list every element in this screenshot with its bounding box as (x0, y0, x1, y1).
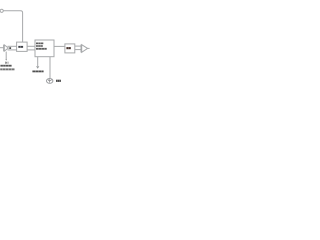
wire USB drop (49, 57, 51, 78)
wire A/D to DSP lower (27, 49, 35, 51)
label SIGNAL (36, 45, 43, 47)
USB trident mark (48, 79, 52, 82)
DSP box U2 (35, 40, 54, 57)
label attenuation values (0, 68, 14, 70)
wire amp to A/D lower (8, 49, 17, 51)
wire from connector to A/D converter top (3, 11, 22, 42)
label DIGITAL (36, 43, 43, 45)
amplifier U1 input bar (3, 45, 5, 52)
wire DSP to D/A (54, 45, 65, 47)
label PROCESSING (36, 48, 47, 50)
wire D/A to amp upper (75, 45, 81, 47)
amplifier U1 triangle (4, 45, 8, 51)
label IN-LEVEL (0, 65, 11, 67)
gain arrow head (5, 59, 7, 61)
label A/D (18, 46, 23, 48)
wire amp to A/D upper (8, 45, 17, 47)
gain control wire down from amp (5, 52, 7, 60)
antenna symbol arrowhead (36, 66, 39, 69)
wire audio out (88, 47, 90, 49)
wire D/A to amp lower (75, 49, 81, 51)
wire line-in left edge (0, 47, 3, 49)
amplifier U3 input bar (80, 45, 82, 53)
wire A/D to DSP upper (27, 45, 35, 47)
label USB (56, 80, 61, 82)
A/D converter box (17, 42, 28, 51)
USB connector oval (47, 79, 53, 84)
wire wireless antenna drop (37, 57, 39, 66)
label switch positions mark (5, 62, 8, 64)
label WIRELESS (32, 71, 43, 73)
input connector circle J1 (0, 9, 3, 12)
amplifier U3 triangle (82, 45, 88, 53)
junction dot amp output (9, 47, 11, 49)
D/A converter box (65, 44, 75, 53)
label D/A (66, 47, 70, 49)
